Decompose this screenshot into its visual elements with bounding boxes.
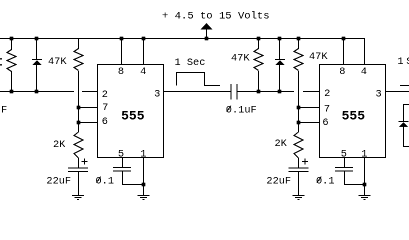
svg-text:2K: 2K [53,139,66,151]
svg-text:7: 7 [102,102,108,114]
svg-text:47K: 47K [48,56,67,68]
svg-text:5: 5 [341,148,347,160]
svg-text:1 Sec: 1 Sec [175,57,206,69]
svg-text:2: 2 [324,88,330,100]
svg-text:3: 3 [154,88,160,100]
svg-text:5: 5 [118,148,124,160]
svg-text:1: 1 [361,148,367,160]
svg-text:47K: 47K [309,51,328,63]
svg-text:F: F [1,105,7,117]
svg-text:4: 4 [140,66,146,78]
svg-text:22uF: 22uF [46,175,71,187]
svg-text:3: 3 [376,88,382,100]
svg-text:1: 1 [140,148,146,160]
svg-text:6: 6 [102,116,108,128]
svg-text:47K: 47K [231,53,250,65]
svg-text:555: 555 [121,109,145,124]
svg-text:+ 4.5 to 15 Volts: + 4.5 to 15 Volts [162,10,270,22]
svg-text:2: 2 [102,89,108,101]
svg-text:8: 8 [339,66,345,78]
svg-text:8: 8 [118,66,124,78]
svg-text:6: 6 [322,117,328,129]
svg-text:2K: 2K [275,138,288,150]
svg-text:4: 4 [361,66,367,78]
svg-text:0.1: 0.1 [96,176,115,188]
svg-text:22uF: 22uF [266,175,291,187]
svg-text:7: 7 [324,104,330,116]
svg-text:0.1: 0.1 [316,176,335,188]
svg-text:555: 555 [342,109,366,124]
svg-text:1: 1 [397,56,403,68]
